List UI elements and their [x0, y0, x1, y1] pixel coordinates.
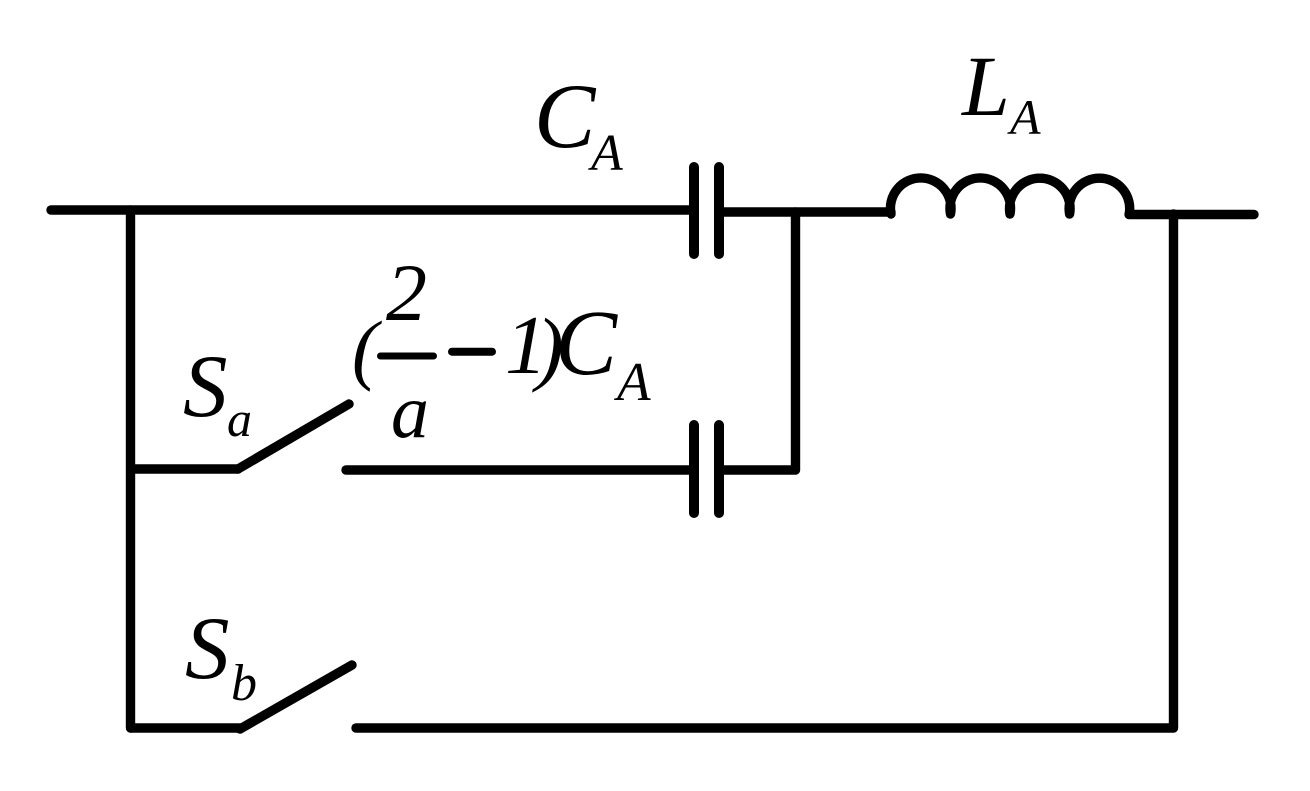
svg-text:A: A — [1007, 89, 1041, 145]
svg-text:2: 2 — [386, 247, 427, 338]
svg-text:a: a — [227, 391, 252, 447]
svg-text:A: A — [613, 351, 651, 412]
svg-text:C: C — [555, 292, 618, 395]
svg-text:L: L — [960, 38, 1010, 134]
svg-text:S: S — [185, 600, 230, 698]
svg-text:A: A — [588, 125, 623, 182]
svg-text:b: b — [231, 655, 257, 712]
svg-text:C: C — [534, 65, 597, 167]
svg-text:(: ( — [352, 305, 382, 392]
svg-text:a: a — [391, 370, 429, 454]
svg-text:S: S — [183, 338, 228, 436]
